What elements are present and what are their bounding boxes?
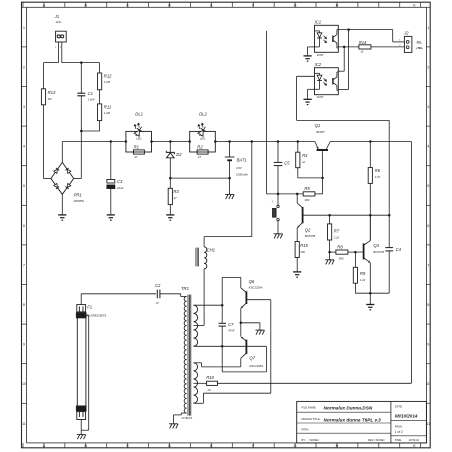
ground R3 xyxy=(166,215,174,220)
ground IC1 xyxy=(304,56,312,61)
junction (329.6,215.2) xyxy=(328,214,331,217)
inductor CH1 xyxy=(194,247,215,326)
wire IC2 output to C4 xyxy=(297,76,390,247)
junction (348.6,29.6) xyxy=(347,28,350,31)
bridge rectifier PR1 xyxy=(44,142,84,215)
svg-text:7: 7 xyxy=(427,263,429,267)
junction (370.3,141.5) xyxy=(369,140,372,143)
svg-text:R8: R8 xyxy=(337,244,343,249)
resistor R12 xyxy=(98,63,113,90)
svg-text:1: 1 xyxy=(23,26,25,30)
wire IC1 pin4 to R14 xyxy=(338,46,359,48)
svg-text:R3: R3 xyxy=(173,189,179,194)
svg-text:C2: C2 xyxy=(155,283,161,288)
junction (222.2,346.3) xyxy=(221,345,224,348)
svg-text:PATH:: PATH: xyxy=(302,427,310,431)
capacitor C1 xyxy=(77,63,95,179)
svg-text:R13: R13 xyxy=(48,90,56,95)
resistor R3 xyxy=(168,178,179,214)
svg-text:8: 8 xyxy=(23,303,25,307)
svg-text:5: 5 xyxy=(427,184,429,188)
svg-text:6: 6 xyxy=(23,224,25,228)
junction (215.3,141.5) xyxy=(214,140,217,143)
svg-text:H: H xyxy=(336,444,339,448)
svg-text:Q2: Q2 xyxy=(305,228,311,233)
resistor R15 xyxy=(295,242,308,272)
svg-text:BC807: BC807 xyxy=(316,130,325,134)
svg-text:KSC2328A: KSC2328A xyxy=(249,364,263,368)
wire mid rail xyxy=(170,177,229,179)
wire Q6 base feedback xyxy=(194,300,271,404)
resistor R14 xyxy=(359,40,405,53)
svg-text:5: 5 xyxy=(23,184,25,188)
svg-text:47: 47 xyxy=(198,155,202,159)
svg-text:R15: R15 xyxy=(300,243,308,248)
svg-text:R14: R14 xyxy=(359,40,367,45)
svg-text:47: 47 xyxy=(173,196,177,200)
connector J1 xyxy=(54,14,66,49)
svg-text:R11: R11 xyxy=(104,104,111,109)
svg-text:9: 9 xyxy=(23,343,25,347)
svg-text:1.2k: 1.2k xyxy=(360,278,366,282)
svg-text:I: I xyxy=(378,4,379,8)
transformer TR1 xyxy=(181,286,198,420)
svg-text:7: 7 xyxy=(23,263,25,267)
wire cross V1 xyxy=(338,47,344,71)
junction (151.5,141.5) xyxy=(150,140,153,143)
svg-text:IC2: IC2 xyxy=(315,62,322,67)
svg-text:Q3: Q3 xyxy=(373,243,379,248)
svg-text:Q7: Q7 xyxy=(249,356,255,361)
svg-text:KSC2328A: KSC2328A xyxy=(249,285,263,289)
svg-text:1.2M: 1.2M xyxy=(104,80,111,84)
junction (81.3,131.0) xyxy=(80,130,83,133)
svg-text:1.5uF: 1.5uF xyxy=(88,98,95,102)
svg-text:H: H xyxy=(336,4,339,8)
svg-text:TR1: TR1 xyxy=(181,286,189,291)
transistor Q7 KSC2328A xyxy=(194,323,264,368)
junction (329.6,252.1) xyxy=(328,251,331,254)
transistor Q3 BC847B xyxy=(355,215,384,293)
svg-text:C: C xyxy=(126,444,129,448)
junction (229.6,141.5) xyxy=(228,140,231,143)
junction (170.3,178.1) xyxy=(169,177,172,180)
svg-text:47nF: 47nF xyxy=(228,329,235,333)
svg-text:1M: 1M xyxy=(48,97,53,101)
svg-text:IC1: IC1 xyxy=(315,20,322,25)
svg-text:BC847B: BC847B xyxy=(305,234,316,238)
svg-text:100: 100 xyxy=(300,250,305,254)
resistor R10 xyxy=(194,375,218,392)
ground C3 xyxy=(107,215,115,220)
svg-text:G: G xyxy=(294,444,297,448)
svg-text:G: G xyxy=(294,4,297,8)
capacitor C5 xyxy=(274,142,290,194)
junction (344.2,46.9) xyxy=(343,46,346,49)
svg-text:<NONE>: <NONE> xyxy=(309,438,320,442)
connector J2 xyxy=(399,30,423,52)
svg-text:4: 4 xyxy=(23,145,25,149)
svg-text:R10: R10 xyxy=(206,375,214,380)
transistor Q6 KSC2328A xyxy=(241,279,271,323)
junction (370.3,215.2) xyxy=(369,214,372,217)
wire IC1 pin5 to J2 xyxy=(338,30,404,42)
svg-text:3: 3 xyxy=(427,105,429,109)
svg-text:10: 10 xyxy=(207,388,211,392)
svg-text:F1: F1 xyxy=(87,305,92,310)
wire right rail down to R10 xyxy=(218,142,412,384)
resistor R8 xyxy=(330,244,356,260)
junction (229.6,178.1) xyxy=(228,177,231,180)
svg-text:R12: R12 xyxy=(104,74,112,79)
svg-text:FILE NAME:: FILE NAME: xyxy=(302,405,317,409)
svg-text:9: 9 xyxy=(427,343,429,347)
svg-text:22uF: 22uF xyxy=(116,186,124,190)
resistor R11 xyxy=(81,90,111,131)
svg-text:10: 10 xyxy=(22,382,26,386)
svg-text:C4: C4 xyxy=(396,247,402,252)
LED DL1 with resistor R1 xyxy=(126,112,152,159)
svg-text:1 of 1: 1 of 1 xyxy=(395,430,403,434)
junction (297.2,193.9) xyxy=(296,193,299,196)
svg-text:Q1: Q1 xyxy=(315,123,321,128)
svg-text:R7: R7 xyxy=(334,229,340,234)
ground TR1 primary xyxy=(169,424,178,429)
svg-text:D2: D2 xyxy=(176,152,182,157)
svg-text:nF: nF xyxy=(156,301,159,305)
svg-text:R1: R1 xyxy=(134,145,139,150)
svg-text:DL1: DL1 xyxy=(135,112,143,117)
svg-text:I: I xyxy=(378,444,379,448)
svg-text:Q6: Q6 xyxy=(249,279,255,284)
junction (322.6,177.9) xyxy=(321,177,324,180)
svg-text:J1: J1 xyxy=(54,14,59,19)
svg-text:C1: C1 xyxy=(88,91,93,96)
wire J1 pins down to input split xyxy=(44,42,100,63)
junction (81.3,62.6) xyxy=(80,61,83,64)
junction (110.8,141.5) xyxy=(110,140,113,143)
svg-text:R4: R4 xyxy=(302,153,308,158)
svg-text:11: 11 xyxy=(426,422,430,426)
svg-text:11: 11 xyxy=(22,422,26,426)
resistor R9 xyxy=(353,252,389,293)
optocoupler IC1 xyxy=(308,20,339,57)
svg-text:PAGE:: PAGE: xyxy=(395,425,403,429)
transistor Q1 BC807 xyxy=(315,123,331,178)
junction (251.8,141.5) xyxy=(251,140,254,143)
svg-text:R5: R5 xyxy=(304,186,310,191)
svg-text:560: 560 xyxy=(339,256,344,260)
svg-text:8: 8 xyxy=(427,303,429,307)
svg-text:-TEL: -TEL xyxy=(416,40,423,44)
svg-text:BAT1: BAT1 xyxy=(237,157,247,162)
svg-text:1.2M: 1.2M xyxy=(104,111,111,115)
svg-text:C5: C5 xyxy=(284,161,290,166)
svg-text:BY:: BY: xyxy=(302,438,306,442)
junction (222.2,305.2) xyxy=(221,304,224,307)
svg-text:R2: R2 xyxy=(197,145,203,150)
jumper JP1 xyxy=(272,194,279,234)
resistor R7 xyxy=(328,215,340,252)
ground F1 xyxy=(77,435,86,440)
svg-text:Normalux dunna T6PL v.3: Normalux dunna T6PL v.3 xyxy=(324,417,382,422)
svg-text:10: 10 xyxy=(426,382,430,386)
svg-text:LED: LED xyxy=(200,137,205,141)
svg-text:DATE:: DATE: xyxy=(395,404,403,408)
resistor R5 xyxy=(303,186,315,202)
capacitor C4 xyxy=(385,247,401,293)
junction (370.3,293.2) xyxy=(369,292,372,295)
transistor Q2 BC847B xyxy=(297,194,329,242)
capacitor C2 xyxy=(81,283,181,305)
svg-text:08/10/2014: 08/10/2014 xyxy=(395,413,418,418)
svg-text:3: 3 xyxy=(23,105,25,109)
svg-text:TIME:: TIME: xyxy=(395,438,402,442)
junction (189.7,141.5) xyxy=(188,140,191,143)
svg-text:PR1: PR1 xyxy=(74,193,82,198)
zener diode D2 xyxy=(166,142,182,179)
svg-text:BC847B: BC847B xyxy=(373,250,384,254)
battery BAT1 xyxy=(225,142,249,179)
svg-text:FLUORESCENTE: FLUORESCENTE xyxy=(87,314,107,317)
wire secondary top to Q6 collector xyxy=(194,277,241,305)
svg-text:4N37: 4N37 xyxy=(317,53,324,57)
wire primary bottom to ground xyxy=(174,413,187,424)
svg-text:R9: R9 xyxy=(360,271,366,276)
wire Q7 base network xyxy=(194,346,267,372)
resistor R6 xyxy=(368,142,381,241)
ground half-bridge midpoint xyxy=(241,323,265,335)
wire +rail bus xyxy=(62,141,411,143)
svg-text:DF005S: DF005S xyxy=(74,199,84,203)
optocoupler IC2 xyxy=(308,62,339,99)
svg-text:CH1: CH1 xyxy=(207,248,215,253)
svg-text:2.2k: 2.2k xyxy=(333,235,340,239)
wire bus to CH1 xyxy=(204,142,252,247)
svg-text:LED: LED xyxy=(136,137,141,141)
capacitor C3 xyxy=(107,142,124,215)
svg-text:2: 2 xyxy=(23,65,25,69)
svg-text:220~: 220~ xyxy=(55,20,63,24)
svg-text:C7: C7 xyxy=(228,322,234,327)
svg-text:4: 4 xyxy=(427,145,429,149)
wire cross V2 xyxy=(338,30,348,90)
resistor R13 xyxy=(41,63,56,179)
junction (389.2,215.2) xyxy=(388,214,391,217)
ground IC2 xyxy=(304,99,312,104)
wire base feed line xyxy=(267,31,323,194)
svg-text:47: 47 xyxy=(134,155,138,159)
svg-text:FLYBACK: FLYBACK xyxy=(182,417,193,420)
svg-text:C3: C3 xyxy=(117,179,123,184)
svg-text:6: 6 xyxy=(427,224,429,228)
ground BAT1 xyxy=(225,178,234,199)
ground R7/R8 xyxy=(325,252,334,264)
svg-text:+TEL: +TEL xyxy=(416,46,424,50)
wire F1 second electrode xyxy=(81,315,89,430)
junction (355.4,252.1) xyxy=(354,251,357,254)
junction (240.8,322.8) xyxy=(240,322,243,325)
svg-text:DESIGN TITLE:: DESIGN TITLE: xyxy=(302,417,321,421)
svg-text:1: 1 xyxy=(427,26,429,30)
svg-text:DL2: DL2 xyxy=(199,112,207,117)
svg-text:C: C xyxy=(126,4,129,8)
svg-text:10:59:44: 10:59:44 xyxy=(409,438,420,442)
junction (125.9,141.5) xyxy=(125,140,128,143)
junction (297.8,141.5) xyxy=(297,140,300,143)
ground Q3 emitter xyxy=(366,293,374,310)
svg-text:D: D xyxy=(168,4,171,8)
svg-text:2: 2 xyxy=(427,65,429,69)
svg-text:J2: J2 xyxy=(403,30,409,35)
ground jumper xyxy=(274,234,283,239)
ground PR1 xyxy=(58,215,66,220)
ground R15 xyxy=(293,272,301,277)
title block xyxy=(297,401,427,443)
svg-text:Normalux Dunna.DSN: Normalux Dunna.DSN xyxy=(324,406,373,411)
svg-text:REV:<NONE>: REV:<NONE> xyxy=(368,438,386,442)
wire Q2 base line xyxy=(330,214,390,216)
LED DL2 with resistor R2 xyxy=(190,112,216,159)
junction (170.3,141.5) xyxy=(169,140,172,143)
junction (278.0,141.5) xyxy=(277,140,280,143)
svg-text:R6: R6 xyxy=(375,168,381,173)
capacitor C7 xyxy=(219,305,235,346)
svg-text:4.7k: 4.7k xyxy=(375,175,381,179)
svg-text:4N37: 4N37 xyxy=(317,95,324,99)
fluorescent lamp F1 xyxy=(76,294,106,435)
resistor R4 xyxy=(296,142,323,178)
svg-text:360: 360 xyxy=(305,198,310,202)
svg-text:1500mAh: 1500mAh xyxy=(236,173,248,177)
svg-text:D: D xyxy=(168,444,171,448)
wire primary top to C2 xyxy=(181,294,187,297)
junction (278.0,193.9) xyxy=(277,193,280,196)
